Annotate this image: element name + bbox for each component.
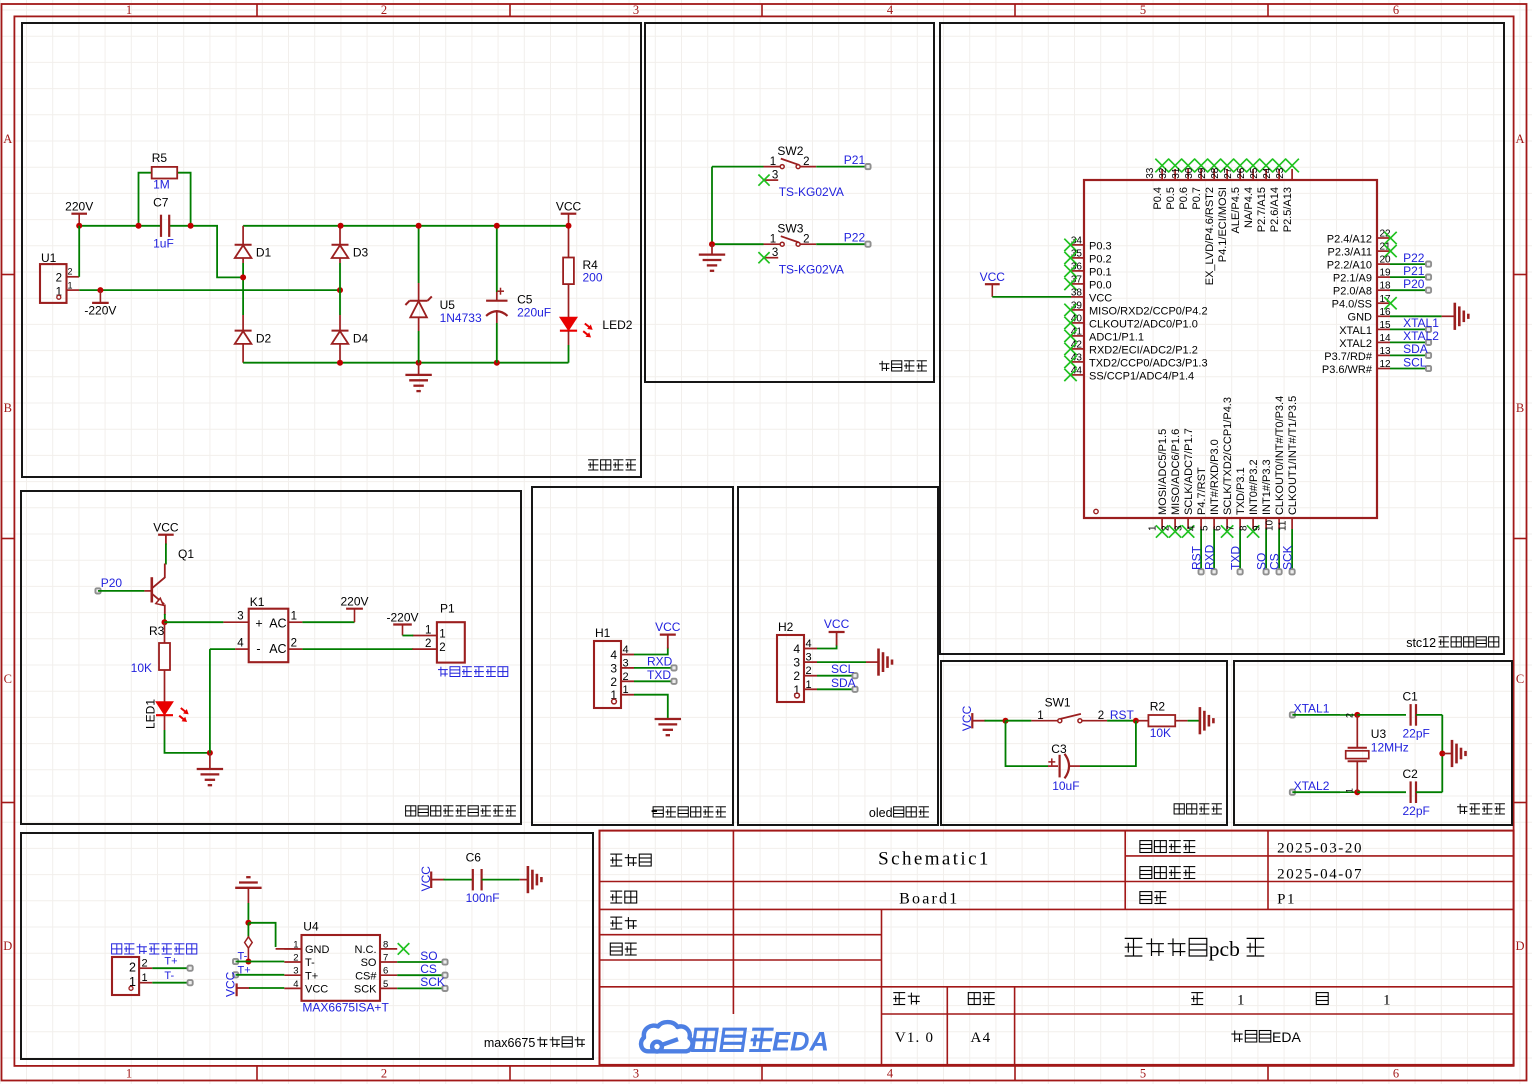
svg-text:SCL: SCL (1403, 355, 1427, 369)
svg-text:1: 1 (291, 610, 297, 622)
svg-text:7: 7 (1226, 525, 1237, 531)
svg-text:1M: 1M (153, 178, 170, 192)
svg-text:1uF: 1uF (153, 237, 174, 251)
svg-text:2: 2 (381, 1067, 387, 1081)
svg-text:C2: C2 (1403, 767, 1419, 781)
svg-text:CLKOUT0/INT#/T0/P3.4: CLKOUT0/INT#/T0/P3.4 (1274, 396, 1286, 515)
svg-text:XTAL1: XTAL1 (1339, 325, 1372, 337)
svg-text:EDA: EDA (772, 1027, 829, 1057)
svg-text:10uF: 10uF (1052, 779, 1079, 793)
svg-text:SW1: SW1 (1045, 696, 1071, 710)
svg-text:RST: RST (1190, 545, 1204, 570)
svg-text:VCC: VCC (980, 270, 1006, 284)
svg-text:CS: CS (420, 962, 437, 976)
svg-text:P1: P1 (440, 602, 455, 616)
svg-text:C6: C6 (466, 851, 482, 865)
svg-text:R3: R3 (149, 624, 165, 638)
svg-text:N.C.: N.C. (355, 944, 377, 956)
svg-text:P21: P21 (1403, 264, 1425, 278)
svg-text:P4.0/SS: P4.0/SS (1332, 299, 1372, 311)
svg-text:3: 3 (610, 661, 617, 675)
svg-text:RST: RST (1110, 708, 1135, 722)
svg-text:200: 200 (583, 271, 603, 285)
svg-text:6: 6 (1393, 3, 1399, 17)
svg-text:27: 27 (1223, 167, 1234, 179)
svg-text:GND: GND (305, 944, 330, 956)
svg-text:2: 2 (793, 669, 800, 683)
svg-text:42: 42 (1071, 339, 1083, 350)
svg-text:-: - (256, 642, 260, 656)
svg-text:1: 1 (126, 3, 132, 17)
svg-text:TS-KG02VA: TS-KG02VA (779, 263, 844, 277)
svg-text:3: 3 (293, 966, 298, 977)
svg-text:CS#: CS# (355, 970, 377, 982)
svg-text:2: 2 (610, 675, 617, 689)
svg-text:U5: U5 (440, 298, 456, 312)
svg-text:TXD: TXD (647, 668, 671, 682)
svg-text:2: 2 (68, 267, 73, 277)
svg-text:2: 2 (1345, 713, 1355, 718)
svg-text:P3.7/RD#: P3.7/RD# (1324, 351, 1373, 363)
svg-text:P2.3/A11: P2.3/A11 (1328, 247, 1372, 259)
svg-text:MISO/ADC6/P1.6: MISO/ADC6/P1.6 (1170, 429, 1182, 515)
svg-text:T+: T+ (164, 955, 177, 967)
svg-text:4: 4 (806, 638, 812, 650)
svg-text:Q1: Q1 (178, 547, 194, 561)
svg-text:10: 10 (1265, 519, 1276, 531)
svg-text:TXD2/CCP0/ADC3/P1.3: TXD2/CCP0/ADC3/P1.3 (1089, 357, 1208, 369)
svg-text:2: 2 (291, 637, 297, 649)
svg-text:6: 6 (383, 966, 388, 977)
svg-text:22pF: 22pF (1403, 804, 1430, 818)
svg-text:2: 2 (623, 671, 629, 683)
svg-text:P0.5: P0.5 (1165, 187, 1177, 210)
svg-text:U4: U4 (303, 920, 319, 934)
svg-text:T+: T+ (238, 964, 251, 976)
svg-text:oled: oled (869, 806, 893, 820)
svg-text:LED1: LED1 (144, 699, 158, 729)
svg-text:15: 15 (1380, 320, 1392, 331)
svg-text:VCC: VCC (1089, 292, 1112, 304)
svg-text:INT0#/P3.2: INT0#/P3.2 (1248, 459, 1260, 515)
svg-text:SCLK/ADC7/P1.7: SCLK/ADC7/P1.7 (1183, 428, 1195, 515)
svg-text:2: 2 (425, 638, 431, 650)
svg-text:P4.1/ECI/MOSI: P4.1/ECI/MOSI (1217, 187, 1229, 262)
svg-text:P21: P21 (844, 153, 866, 167)
svg-text:VCC: VCC (305, 984, 328, 996)
svg-text:20: 20 (1380, 255, 1392, 266)
svg-text:4: 4 (793, 642, 800, 656)
svg-text:RXD: RXD (1203, 544, 1217, 570)
svg-text:C1: C1 (1403, 689, 1419, 703)
svg-text:-220V: -220V (386, 611, 418, 625)
svg-text:pcb: pcb (1209, 937, 1240, 961)
svg-text:4: 4 (887, 3, 894, 17)
svg-text:34: 34 (1071, 235, 1083, 246)
svg-text:CLKOUT1/INT#/T1/P3.5: CLKOUT1/INT#/T1/P3.5 (1287, 396, 1299, 515)
svg-text:2: 2 (381, 3, 387, 17)
svg-text:P0.0: P0.0 (1089, 279, 1112, 291)
svg-text:37: 37 (1071, 274, 1083, 285)
svg-text:C: C (4, 672, 12, 686)
svg-text:P3.6/WR#: P3.6/WR# (1322, 364, 1373, 376)
svg-text:11: 11 (1278, 520, 1289, 531)
svg-text:P2.5/A13: P2.5/A13 (1282, 187, 1294, 232)
svg-text:K1: K1 (250, 595, 265, 609)
svg-text:2: 2 (129, 961, 136, 975)
svg-text:5: 5 (1140, 1067, 1146, 1081)
svg-text:1: 1 (770, 156, 776, 168)
svg-text:SW2: SW2 (777, 144, 803, 158)
svg-text:MOSI/ADC5/P1.5: MOSI/ADC5/P1.5 (1157, 429, 1169, 515)
svg-text:XTAL1: XTAL1 (1294, 701, 1330, 715)
svg-text:stc12: stc12 (1406, 636, 1436, 650)
svg-text:P2.0/A8: P2.0/A8 (1333, 286, 1372, 298)
svg-text:SCLK/TXD2/CCP1/P4.3: SCLK/TXD2/CCP1/P4.3 (1222, 397, 1234, 515)
svg-text:VCC: VCC (824, 617, 850, 631)
svg-text:12MHz: 12MHz (1371, 741, 1409, 755)
svg-text:SDA: SDA (1403, 342, 1428, 356)
svg-text:B: B (1516, 401, 1524, 415)
svg-text:2: 2 (803, 156, 809, 168)
svg-text:XTAL2: XTAL2 (1339, 338, 1372, 350)
svg-text:C7: C7 (153, 196, 169, 210)
svg-text:P0.4: P0.4 (1152, 187, 1164, 210)
svg-text:INT1#/P3.3: INT1#/P3.3 (1261, 459, 1273, 515)
svg-text:P0.1: P0.1 (1089, 266, 1112, 278)
svg-text:3: 3 (772, 170, 778, 182)
svg-text:SCK: SCK (1281, 545, 1295, 570)
svg-text:P1: P1 (1277, 892, 1296, 908)
svg-text:1: 1 (1037, 710, 1043, 722)
svg-text:P2.6/A14: P2.6/A14 (1269, 187, 1281, 232)
svg-text:1: 1 (293, 939, 298, 950)
svg-text:5: 5 (1200, 525, 1211, 531)
svg-text:1: 1 (1237, 993, 1245, 1009)
svg-text:14: 14 (1380, 333, 1392, 344)
svg-text:T+: T+ (305, 970, 318, 982)
svg-text:AC: AC (269, 642, 286, 656)
svg-text:D2: D2 (256, 332, 272, 346)
svg-text:35: 35 (1071, 248, 1083, 259)
svg-text:25: 25 (1249, 167, 1260, 179)
svg-text:1: 1 (68, 280, 73, 290)
svg-text:18: 18 (1380, 281, 1392, 292)
svg-text:39: 39 (1071, 300, 1083, 311)
svg-text:4: 4 (237, 637, 244, 649)
svg-text:TS-KG02VA: TS-KG02VA (779, 185, 844, 199)
svg-text:V1. 0: V1. 0 (895, 1030, 934, 1046)
svg-text:2025-04-07: 2025-04-07 (1277, 867, 1363, 883)
svg-text:4: 4 (610, 648, 617, 662)
svg-text:R2: R2 (1150, 700, 1166, 714)
svg-text:XTAL2: XTAL2 (1294, 779, 1330, 793)
svg-text:H2: H2 (778, 620, 794, 634)
svg-text:4: 4 (887, 1067, 894, 1081)
svg-text:GND: GND (1348, 312, 1373, 324)
svg-text:P20: P20 (1403, 277, 1425, 291)
svg-text:7: 7 (383, 953, 388, 964)
svg-text:A: A (3, 132, 12, 146)
svg-text:1: 1 (439, 629, 445, 641)
svg-text:CS: CS (1268, 553, 1282, 570)
svg-text:D1: D1 (256, 246, 272, 260)
svg-text:T-: T- (164, 970, 174, 982)
svg-text:A: A (1515, 132, 1524, 146)
svg-text:1: 1 (425, 625, 431, 637)
svg-text:RXD: RXD (647, 654, 673, 668)
svg-text:U3: U3 (1371, 727, 1387, 741)
svg-text:INT#/RXD/P3.0: INT#/RXD/P3.0 (1209, 439, 1221, 515)
svg-text:Board1: Board1 (899, 891, 959, 908)
svg-text:P22: P22 (844, 231, 866, 245)
svg-text:1: 1 (1345, 788, 1355, 793)
svg-text:U1: U1 (41, 251, 57, 265)
svg-text:SCK: SCK (354, 984, 377, 996)
svg-text:1: 1 (806, 679, 812, 691)
svg-text:VCC: VCC (655, 620, 681, 634)
svg-text:16: 16 (1380, 307, 1392, 318)
svg-text:D: D (1515, 939, 1524, 953)
svg-text:1N4733: 1N4733 (440, 311, 482, 325)
svg-text:P2.7/A15: P2.7/A15 (1256, 187, 1268, 232)
svg-text:2: 2 (806, 665, 812, 677)
svg-text:EX_LVD/P4.6/RST2: EX_LVD/P4.6/RST2 (1204, 187, 1216, 285)
svg-text:max6675: max6675 (484, 1036, 535, 1050)
svg-text:TXD: TXD (1229, 546, 1243, 570)
svg-text:TXD/P3.1: TXD/P3.1 (1235, 467, 1247, 515)
svg-text:P2.1/A9: P2.1/A9 (1333, 273, 1372, 285)
svg-text:SS/CCP1/ADC4/P1.4: SS/CCP1/ADC4/P1.4 (1089, 370, 1194, 382)
svg-text:100nF: 100nF (466, 891, 500, 905)
svg-text:3: 3 (806, 652, 812, 664)
svg-text:VCC: VCC (556, 200, 582, 214)
svg-text:10K: 10K (131, 661, 152, 675)
svg-text:EDA: EDA (1272, 1029, 1301, 1045)
svg-text:C3: C3 (1051, 742, 1067, 756)
svg-text:1: 1 (770, 234, 776, 246)
svg-text:C: C (1516, 672, 1524, 686)
svg-text:3: 3 (633, 3, 639, 17)
svg-text:Schematic1: Schematic1 (878, 849, 991, 870)
svg-text:T-: T- (305, 957, 315, 969)
svg-text:4: 4 (1187, 525, 1198, 531)
svg-text:2: 2 (1098, 710, 1104, 722)
svg-text:ALE/P4.5: ALE/P4.5 (1230, 187, 1242, 233)
svg-text:MISO/RXD2/CCP0/P4.2: MISO/RXD2/CCP0/P4.2 (1089, 305, 1208, 317)
svg-text:C5: C5 (517, 293, 533, 307)
svg-text:1: 1 (1383, 993, 1391, 1009)
svg-text:3: 3 (633, 1067, 639, 1081)
svg-text:3: 3 (772, 247, 778, 259)
svg-text:NA/P4.4: NA/P4.4 (1243, 187, 1255, 228)
svg-text:P2.2/A10: P2.2/A10 (1327, 260, 1372, 272)
svg-text:4: 4 (623, 644, 629, 656)
svg-text:30: 30 (1184, 167, 1195, 179)
svg-text:SO: SO (361, 957, 377, 969)
svg-text:1: 1 (623, 684, 629, 696)
svg-text:33: 33 (1145, 167, 1156, 179)
svg-text:-220V: -220V (84, 304, 116, 318)
svg-text:2: 2 (56, 273, 62, 285)
svg-text:220V: 220V (340, 595, 368, 609)
svg-text:3: 3 (623, 657, 629, 669)
svg-text:36: 36 (1071, 261, 1083, 272)
svg-text:2: 2 (293, 953, 298, 964)
svg-text:5: 5 (383, 979, 388, 990)
svg-text:+: + (255, 616, 262, 630)
svg-text:CLKOUT2/ADC0/P1.0: CLKOUT2/ADC0/P1.0 (1089, 318, 1198, 330)
svg-text:19: 19 (1380, 268, 1392, 279)
svg-text:D: D (3, 939, 12, 953)
svg-text:220V: 220V (65, 200, 93, 214)
svg-text:RXD2/ECI/ADC2/P1.2: RXD2/ECI/ADC2/P1.2 (1089, 344, 1198, 356)
svg-text:SDA: SDA (831, 676, 856, 690)
svg-text:40: 40 (1071, 313, 1083, 324)
svg-text:13: 13 (1380, 346, 1392, 357)
svg-text:D4: D4 (353, 332, 369, 346)
svg-text:SW3: SW3 (777, 222, 803, 236)
svg-text:SO: SO (1255, 553, 1269, 570)
svg-text:31: 31 (1171, 167, 1182, 179)
svg-text:P4.7/RST: P4.7/RST (1196, 467, 1208, 515)
svg-text:26: 26 (1236, 167, 1247, 179)
svg-text:41: 41 (1071, 326, 1083, 337)
svg-text:9: 9 (1252, 525, 1263, 531)
svg-text:B: B (4, 401, 12, 415)
svg-text:P0.6: P0.6 (1178, 187, 1190, 210)
svg-text:6: 6 (1393, 1067, 1399, 1081)
svg-text:P22: P22 (1403, 251, 1425, 265)
svg-text:28: 28 (1210, 167, 1221, 179)
svg-text:2: 2 (439, 642, 445, 654)
svg-text:12: 12 (1380, 359, 1392, 370)
svg-text:SO: SO (420, 949, 437, 963)
svg-text:P0.3: P0.3 (1089, 240, 1112, 252)
svg-text:5: 5 (1140, 3, 1146, 17)
svg-text:24: 24 (1262, 167, 1273, 179)
svg-text:10K: 10K (1150, 726, 1171, 740)
svg-text:3: 3 (793, 656, 800, 670)
svg-text:P0.7: P0.7 (1191, 187, 1203, 210)
svg-text:43: 43 (1071, 352, 1083, 363)
svg-text:3: 3 (237, 610, 243, 622)
svg-text:2: 2 (803, 234, 809, 246)
svg-text:P20: P20 (101, 576, 123, 590)
svg-text:SCL: SCL (831, 662, 855, 676)
svg-text:38: 38 (1071, 287, 1083, 298)
svg-text:D3: D3 (353, 246, 369, 260)
svg-text:4: 4 (293, 979, 298, 990)
svg-text:2: 2 (142, 958, 148, 970)
svg-text:1: 1 (126, 1067, 132, 1081)
svg-text:A4: A4 (971, 1030, 992, 1046)
svg-text:8: 8 (383, 939, 388, 950)
svg-text:VCC: VCC (153, 521, 179, 535)
svg-text:LED2: LED2 (602, 318, 632, 332)
svg-text:MAX6675ISA+T: MAX6675ISA+T (302, 1001, 389, 1015)
svg-text:ADC1/P1.1: ADC1/P1.1 (1089, 331, 1144, 343)
svg-text:T-: T- (238, 950, 248, 962)
svg-text:44: 44 (1071, 365, 1083, 376)
svg-text:XTAL1: XTAL1 (1403, 316, 1439, 330)
svg-text:22pF: 22pF (1403, 727, 1430, 741)
svg-text:P0.2: P0.2 (1089, 253, 1112, 265)
svg-text:AC: AC (269, 616, 286, 630)
svg-text:SCK: SCK (420, 975, 445, 989)
svg-text:2025-03-20: 2025-03-20 (1277, 841, 1363, 857)
svg-text:1: 1 (142, 972, 148, 984)
svg-text:XTAL2: XTAL2 (1403, 329, 1439, 343)
svg-text:R5: R5 (152, 151, 168, 165)
svg-text:29: 29 (1197, 167, 1208, 179)
svg-text:32: 32 (1158, 167, 1169, 179)
svg-text:23: 23 (1275, 167, 1286, 179)
svg-text:H1: H1 (595, 626, 611, 640)
svg-text:P2.4/A12: P2.4/A12 (1327, 233, 1372, 245)
svg-text:220uF: 220uF (517, 306, 551, 320)
